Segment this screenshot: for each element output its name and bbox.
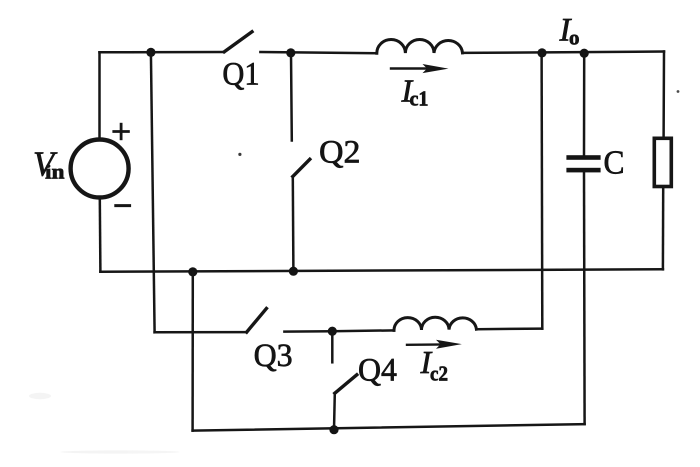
wire riser x=542 up to junction C [540, 53, 543, 329]
label Vin [33, 145, 65, 183]
svg-text:Q2: Q2 [319, 135, 361, 171]
speck artifact right side [677, 90, 680, 93]
node junction Q2 bottom on rail2 [289, 267, 298, 276]
wire junction to inductor L2 [332, 329, 394, 332]
arrow Ic1 [391, 64, 449, 73]
switch Q2 upper lead [290, 53, 293, 141]
plus sign of Vin [114, 124, 129, 139]
switch Q2 lower lead [292, 177, 295, 272]
capacitor C top lead [583, 53, 586, 156]
switch Q2 blade [293, 159, 310, 176]
wire Q3 branch horizontal to contact [155, 331, 247, 334]
resistor load R [654, 138, 671, 186]
node junction D (capacitor top) [580, 49, 589, 58]
scan smudge bottom left [29, 393, 180, 454]
inductor L1 [377, 39, 463, 53]
wire right edge down to load [662, 52, 665, 139]
svg-text:Q3: Q3 [254, 338, 293, 374]
node junction Q4 bottom on bottom rail [329, 425, 338, 434]
svg-text:o: o [569, 25, 580, 49]
wire lower branch riser x=193 [191, 272, 194, 431]
wire riser from junction A down to Q3 branch [151, 52, 155, 332]
wire Q3 right contact to junction [284, 330, 332, 333]
wire top rail Q1 to inductor L1 [260, 52, 376, 53]
arrow Ic2 [407, 340, 462, 349]
switch Q4 upper lead [331, 331, 334, 362]
wire Vin bottom lead [99, 198, 102, 272]
node junction C (to L2 riser) [537, 48, 546, 57]
node junction Q3/Q4/L2 [328, 327, 337, 336]
svg-text:c2: c2 [430, 362, 448, 386]
node junction A on top rail [146, 48, 155, 57]
switch Q3 blade [247, 309, 267, 333]
wire top rail left (to Q1 contact) [100, 51, 225, 54]
label Ic1 [401, 72, 429, 110]
label Ic2 [420, 344, 449, 386]
wire L2 to riser [476, 327, 542, 330]
svg-text:Q1: Q1 [222, 56, 259, 92]
node junction on rail2 (lower branch) [188, 267, 197, 276]
label Q3 [254, 338, 293, 374]
voltage source Vin circle [71, 140, 129, 198]
switch Q4 lower lead [333, 393, 336, 430]
node junction B (Q2 top) [286, 48, 295, 57]
wire load bottom to rail2 [662, 187, 665, 270]
label Q2 [319, 135, 361, 171]
wire Vin top lead [98, 52, 101, 139]
inductor L2 [394, 317, 476, 330]
switch Q1 blade [224, 32, 252, 52]
svg-text:C: C [604, 145, 625, 182]
minus sign of Vin [116, 204, 130, 207]
wire bottom rail [193, 424, 585, 431]
wire rail2 (middle return rail) [100, 269, 663, 272]
capacitor C plates [566, 155, 600, 172]
svg-text:c1: c1 [410, 87, 429, 111]
label Io [559, 12, 580, 49]
speck artifact near Q2 [238, 153, 241, 156]
capacitor C bottom lead [583, 172, 586, 424]
svg-text:Q4: Q4 [358, 353, 397, 389]
label C [604, 145, 625, 182]
label Q1 [222, 56, 259, 92]
svg-text:in: in [45, 162, 65, 184]
switch Q4 blade [335, 375, 357, 393]
wire top rail L1 to right corner [463, 52, 665, 53]
label Q4 [358, 353, 397, 389]
